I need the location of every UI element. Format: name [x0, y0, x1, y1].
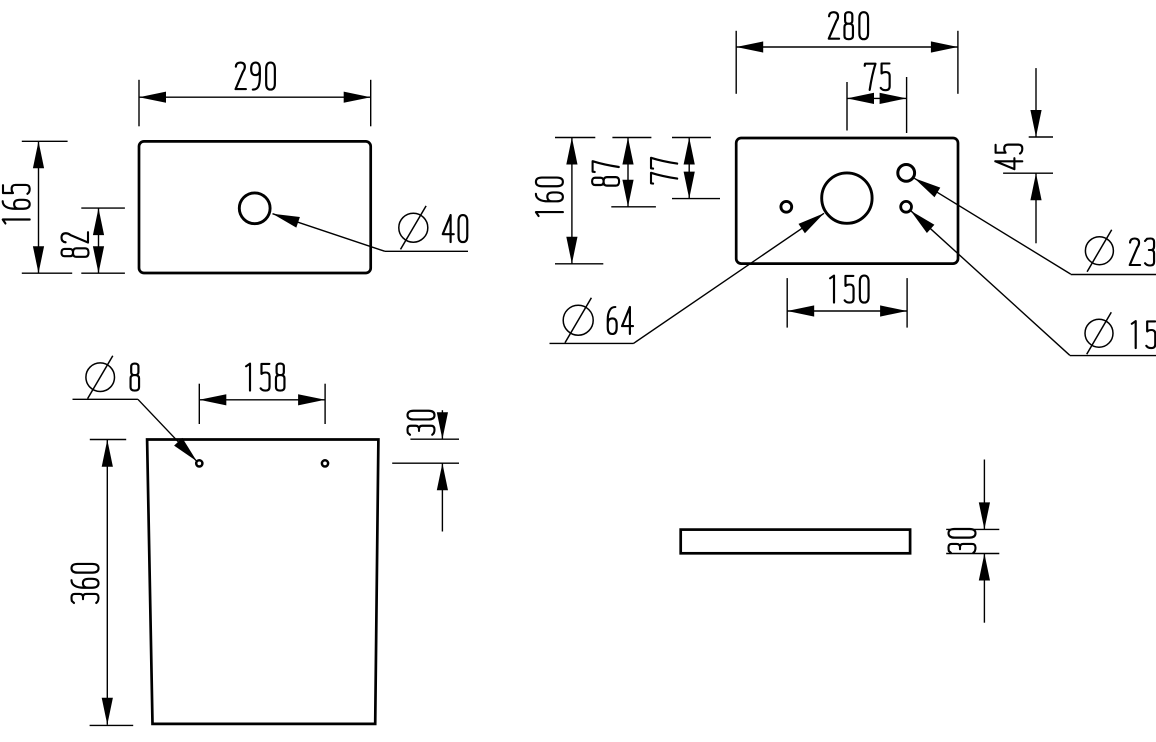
- dimension 75 value text: [865, 64, 890, 91]
- dimension 150 value text: [830, 276, 868, 303]
- view 3: side panel outline 360 tall: [147, 440, 378, 724]
- dimension 30 (thickness): tick lines: [946, 529, 999, 553]
- dimension 82 value text (rotated): [62, 232, 89, 257]
- diameter 40 value text: [443, 215, 468, 242]
- diameter 8 value text: [131, 364, 139, 391]
- dimension 165: tick lines: [22, 141, 72, 273]
- dimension 290: extension lines: [139, 80, 371, 127]
- dimension 87 value text (rotated): [592, 161, 619, 185]
- dimension 30 (hole offset): tick lines: [392, 439, 459, 463]
- leader line to Ø64 hole: [550, 213, 825, 343]
- dimension 45: tick lines: [1003, 137, 1053, 173]
- dimension 158: dimension line with arrowheads: [199, 394, 325, 405]
- view 4: lid side profile bar outline: [681, 530, 910, 554]
- view 1: cistern lid plate outline 290x165: [139, 141, 371, 273]
- leader line to Ø23 hole: [914, 178, 1156, 274]
- dimension 160 value text (rotated): [536, 178, 563, 216]
- dimension 165: dimension line with arrowheads: [33, 141, 44, 273]
- dimension 150: dimension line with arrowheads: [787, 305, 907, 316]
- dimension 87: dimension line with arrowheads: [622, 138, 633, 207]
- view 1: centre hole Ø40: [239, 193, 270, 224]
- dimension 165 value text (rotated): [3, 185, 30, 223]
- diameter symbol Ø (for 40): [399, 206, 428, 250]
- dimension 160: tick lines: [555, 138, 603, 264]
- dimension 280: dimension line with arrowheads: [736, 41, 958, 52]
- view 2: large centre hole Ø64: [822, 173, 872, 223]
- dimension 77: dimension line with arrowheads: [684, 138, 695, 199]
- dimension 30 (hole offset): dimension line with outside arrowheads: [437, 410, 448, 531]
- dimension 280 value text: [829, 12, 868, 39]
- dimension 82: dimension line with arrowheads: [93, 208, 104, 273]
- view 2: hole Ø23: [898, 165, 915, 182]
- dimension 82: tick lines: [81, 208, 125, 273]
- view 2: cistern body outline 280x160: [736, 138, 958, 264]
- diameter 23 value text: [1130, 239, 1154, 266]
- dimension 290 value text: [236, 63, 275, 90]
- dimension 30 value text (rotated): [408, 411, 435, 435]
- view 3: left fixing hole Ø8: [196, 460, 202, 466]
- diameter symbol Ø (for 64): [563, 298, 593, 343]
- dimension 87: tick lines: [611, 138, 656, 207]
- diameter symbol Ø (for 8): [86, 356, 115, 399]
- dimension 360: tick lines: [90, 440, 134, 726]
- dimension 45: dimension line with outside arrowheads: [1030, 68, 1041, 243]
- dimension 150: extension lines: [787, 278, 907, 328]
- dimension 280: extension lines: [736, 31, 958, 94]
- diameter symbol Ø (for 15): [1085, 312, 1113, 354]
- dimension 290: dimension line with arrowheads: [139, 92, 371, 103]
- view 3: right fixing hole Ø8: [322, 460, 328, 466]
- diameter 64 value text: [608, 307, 633, 334]
- dimension 75: dimension line with arrowheads: [847, 93, 907, 104]
- dimension 45 value text (rotated): [995, 145, 1022, 170]
- view 2: small left hole: [781, 201, 792, 212]
- dimension 30 value text (rotated): [949, 529, 976, 553]
- dimension 158 value text: [246, 364, 284, 391]
- diameter symbol Ø (for 23): [1085, 230, 1113, 272]
- dimension 77 value text (rotated): [651, 158, 677, 184]
- dimension 360: dimension line with arrowheads: [102, 440, 113, 725]
- dimension 360 value text (rotated): [72, 564, 99, 603]
- dimension 75: extension lines: [847, 77, 907, 133]
- diameter 15 value text: [1132, 321, 1155, 348]
- leader line to Ø8 hole: [73, 399, 197, 461]
- dimension 30 (thickness): dimension line with outside arrowheads: [979, 460, 990, 623]
- dimension 77: tick lines: [672, 138, 720, 199]
- leader line to Ø40 hole: [273, 214, 469, 252]
- dimension 158: extension lines: [199, 384, 325, 424]
- leader line to Ø15 hole: [911, 211, 1156, 356]
- view 2: hole Ø15: [901, 201, 912, 212]
- dimension 160: dimension line with arrowheads: [566, 138, 577, 264]
